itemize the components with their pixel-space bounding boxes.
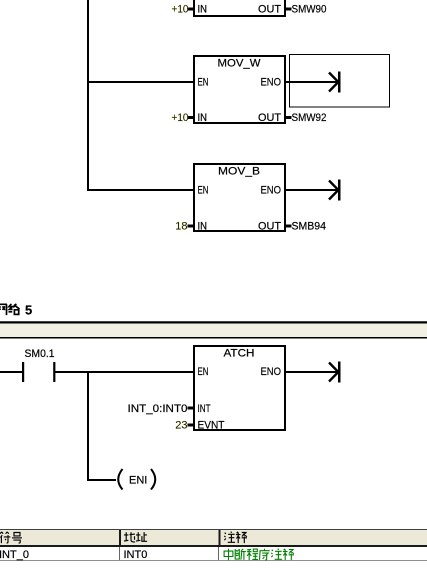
pin tick IN (top box) bbox=[188, 8, 195, 11]
svg-text:5: 5 bbox=[25, 303, 32, 318]
svg-text:INT: INT bbox=[198, 403, 211, 415]
svg-text:EN: EN bbox=[198, 185, 209, 197]
svg-text:ENO: ENO bbox=[261, 77, 282, 89]
pin tick IN (MOV_W) bbox=[188, 116, 195, 119]
wire: branch to MOV_B EN bbox=[87, 189, 195, 191]
wire: MOV_W ENO output bbox=[285, 81, 339, 83]
pin tick IN (MOV_B) bbox=[188, 225, 195, 228]
svg-text:OUT: OUT bbox=[258, 221, 281, 233]
header 注释 bbox=[224, 532, 247, 543]
pin tick OUT (MOV_B) bbox=[285, 225, 292, 228]
pin tick OUT (MOV_W) bbox=[285, 116, 292, 119]
op block MOV_B bbox=[194, 164, 285, 233]
wire: MOV_B ENO output bbox=[285, 189, 339, 191]
separator line bbox=[0, 321, 427, 323]
svg-text:IN: IN bbox=[198, 221, 208, 233]
svg-text:MOV_W: MOV_W bbox=[218, 58, 262, 70]
svg-text:23: 23 bbox=[175, 420, 187, 432]
table data row bbox=[0, 547, 427, 561]
contact SM0.1 bbox=[22, 362, 55, 382]
coil ENI bbox=[118, 469, 155, 490]
pin tick INT bbox=[188, 407, 195, 410]
wire: ATCH ENO output bbox=[285, 371, 339, 373]
svg-text:+10: +10 bbox=[172, 4, 189, 16]
svg-text:ENO: ENO bbox=[261, 185, 282, 197]
svg-text:ENO: ENO bbox=[261, 366, 282, 378]
comment 中断程序注释 bbox=[224, 549, 294, 561]
open-line arrow (MOV_B) bbox=[329, 180, 341, 201]
svg-text:EN: EN bbox=[198, 77, 209, 89]
wire: left power branch rail bbox=[87, 0, 89, 191]
svg-text:+10: +10 bbox=[172, 112, 189, 124]
open-line arrow (MOV_W) bbox=[329, 72, 341, 93]
op block ATCH bbox=[194, 346, 285, 432]
svg-text:SMB94: SMB94 bbox=[292, 221, 327, 233]
network title 网络 5 bbox=[0, 303, 32, 318]
pin tick EVNT bbox=[188, 424, 195, 427]
wire: branch down to ENI bbox=[87, 371, 116, 480]
svg-text:EVNT: EVNT bbox=[198, 420, 225, 432]
svg-text:SMW92: SMW92 bbox=[292, 112, 327, 124]
wire: contact to ATCH EN bbox=[55, 371, 195, 373]
network comment band bbox=[0, 323, 427, 338]
box MOV (top, cut off) bbox=[193, 0, 286, 16]
svg-text:INT_0: INT_0 bbox=[0, 549, 29, 561]
svg-text:ENI: ENI bbox=[129, 475, 147, 487]
svg-text:INT0: INT0 bbox=[124, 549, 148, 561]
svg-text:EN: EN bbox=[198, 366, 209, 378]
selection box cursor bbox=[290, 55, 390, 108]
wire: branch to MOV_W EN bbox=[87, 81, 195, 83]
svg-text:18: 18 bbox=[175, 221, 187, 233]
svg-text:ATCH: ATCH bbox=[224, 348, 255, 360]
open-line arrow (ATCH) bbox=[329, 362, 341, 383]
svg-text:INT_0:INT0: INT_0:INT0 bbox=[128, 403, 188, 415]
header 符号 bbox=[0, 532, 22, 543]
wire: into contact bbox=[0, 371, 22, 373]
svg-text:IN: IN bbox=[198, 112, 208, 124]
svg-text:IN: IN bbox=[198, 4, 208, 16]
table header row bbox=[0, 530, 427, 548]
pin tick OUT (top box) bbox=[285, 8, 292, 11]
svg-text:SM0.1: SM0.1 bbox=[25, 348, 55, 360]
svg-text:OUT: OUT bbox=[258, 4, 281, 16]
svg-text:SMW90: SMW90 bbox=[292, 4, 327, 16]
header 地址 bbox=[124, 532, 147, 542]
op block MOV_W bbox=[194, 56, 285, 124]
svg-text:MOV_B: MOV_B bbox=[218, 166, 260, 178]
svg-text:OUT: OUT bbox=[258, 112, 281, 124]
